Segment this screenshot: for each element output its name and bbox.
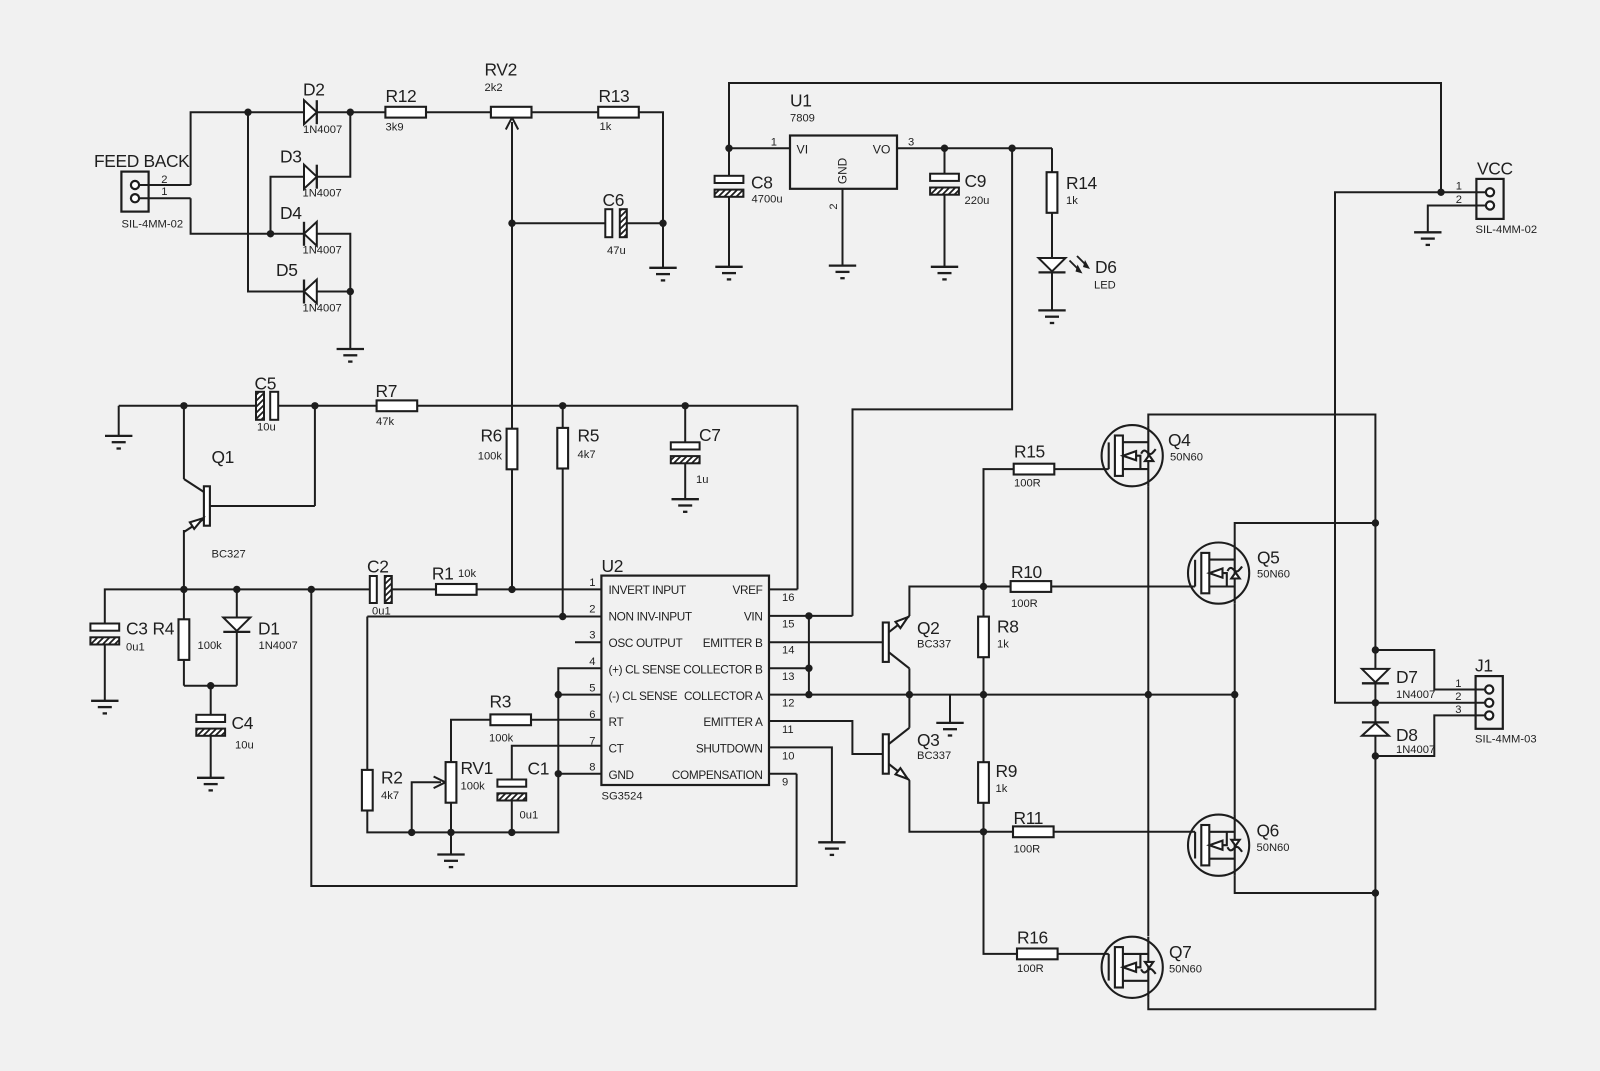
wire R12-RV2 <box>426 111 491 113</box>
svg-text:EMITTER A: EMITTER A <box>703 715 763 729</box>
svg-text:VI: VI <box>797 143 809 157</box>
svg-text:D1: D1 <box>258 619 280 639</box>
svg-text:R3: R3 <box>490 692 512 712</box>
node Q1 emitter row <box>180 586 187 593</box>
diode D8 1N4007 <box>1362 723 1389 735</box>
svg-text:100R: 100R <box>1014 844 1041 856</box>
svg-text:100R: 100R <box>1011 598 1038 610</box>
svg-text:1k: 1k <box>600 121 612 133</box>
svg-text:U2: U2 <box>602 556 624 576</box>
node D1 row <box>233 586 240 593</box>
svg-text:VO: VO <box>873 143 891 157</box>
wire R11 to Q6 gate <box>1054 831 1196 833</box>
svg-text:C8: C8 <box>751 173 773 193</box>
MOSFET Q7 50N60 <box>1102 937 1163 998</box>
wire R2 top <box>366 617 368 771</box>
svg-text:R12: R12 <box>386 86 417 106</box>
svg-text:VCC: VCC <box>1477 159 1513 179</box>
node output mid <box>1372 699 1379 706</box>
svg-text:4k7: 4k7 <box>578 449 596 461</box>
wire pin7 to C1 <box>512 746 602 780</box>
svg-text:7: 7 <box>589 735 595 747</box>
svg-text:D8: D8 <box>1396 725 1418 745</box>
svg-text:D4: D4 <box>280 203 302 223</box>
wire VCC pin2 to ground <box>1428 206 1485 233</box>
connector FEEDBACK SIL-4MM-02 <box>121 172 148 212</box>
svg-text:10u: 10u <box>257 422 276 434</box>
node RV2 wiper C6 <box>508 220 515 227</box>
capacitor C7 1u <box>684 406 686 443</box>
wire R14-D6 <box>1051 213 1053 258</box>
svg-text:1N4007: 1N4007 <box>1396 689 1435 701</box>
ground C9 <box>931 267 958 280</box>
svg-text:220u: 220u <box>965 195 990 207</box>
diode D1 1N4007 <box>236 589 238 617</box>
wire C6 to ground <box>662 223 664 268</box>
svg-text:13: 13 <box>782 671 794 683</box>
capacitor C9 220u <box>944 148 946 174</box>
wire D2 cathode <box>317 111 386 113</box>
ground left rail <box>119 405 256 407</box>
svg-text:R1: R1 <box>432 564 454 584</box>
svg-text:4: 4 <box>589 656 595 668</box>
wire RV2-R13 <box>532 111 599 113</box>
svg-text:1N4007: 1N4007 <box>303 188 342 200</box>
svg-text:R5: R5 <box>578 426 600 446</box>
wire D7 top to J1 pin1 <box>1375 650 1484 690</box>
wire C5-R7 <box>278 405 377 407</box>
diode D2 1N4007 <box>304 100 317 124</box>
resistor R8 1k <box>983 587 985 617</box>
node Q5 drain <box>1372 519 1379 526</box>
IC U1 7809 <box>790 136 897 189</box>
svg-text:47u: 47u <box>607 245 626 257</box>
svg-text:11: 11 <box>782 724 794 736</box>
svg-text:1N4007: 1N4007 <box>303 245 342 257</box>
svg-text:(-) CL SENSE: (-) CL SENSE <box>609 689 678 703</box>
node R6 pin1 <box>508 586 515 593</box>
svg-text:10: 10 <box>782 750 794 762</box>
wire R10 to Q5 gate <box>1051 586 1195 588</box>
svg-text:14: 14 <box>782 645 794 657</box>
capacitor C6 47u <box>605 209 612 237</box>
wire U1 GND pin <box>842 189 844 266</box>
svg-text:3: 3 <box>1455 704 1461 716</box>
node pin5 riser <box>555 691 562 698</box>
svg-text:1N4007: 1N4007 <box>303 303 342 315</box>
diode D7 1N4007 <box>1362 669 1389 682</box>
svg-text:15: 15 <box>782 618 794 630</box>
wire Q7 source <box>1148 893 1375 1009</box>
svg-text:C1: C1 <box>528 759 550 779</box>
wire RV1 bottom <box>450 803 452 833</box>
node compensation riser <box>308 586 315 593</box>
svg-text:Q4: Q4 <box>1168 430 1191 450</box>
node VO riser <box>1008 145 1015 152</box>
node Q2-Q3 collectors <box>906 691 913 698</box>
wire Q3 collector <box>908 695 910 728</box>
resistor R5 4k7 <box>562 406 564 428</box>
node RV1 wiper bottom <box>408 829 415 836</box>
wire pin16 VREF <box>769 588 798 590</box>
wire D3 anode to D4 row <box>271 177 305 234</box>
wire Q1 emitter down <box>183 530 185 589</box>
resistor R3 100k <box>490 714 531 725</box>
node U1 VI <box>725 145 732 152</box>
LED D6 <box>1039 258 1066 271</box>
resistor R2 4k7 <box>362 770 373 811</box>
node Q1 base riser <box>311 402 318 409</box>
node R5 top <box>559 402 566 409</box>
svg-text:R16: R16 <box>1017 928 1048 948</box>
wire Q5 source down <box>1234 604 1236 815</box>
svg-text:SG3524: SG3524 <box>602 791 643 803</box>
node R8-R9 <box>980 691 987 698</box>
node D4 cathode junction <box>267 230 274 237</box>
svg-text:1: 1 <box>161 186 167 198</box>
node D5 anode junction <box>347 288 354 295</box>
svg-text:100R: 100R <box>1014 478 1041 490</box>
wire pin12 COLLECTOR A <box>769 694 1235 696</box>
svg-text:2k2: 2k2 <box>485 82 503 94</box>
svg-text:10u: 10u <box>235 740 254 752</box>
wire RV1 top to R3 <box>451 720 491 762</box>
svg-text:LED: LED <box>1094 280 1116 292</box>
svg-text:47k: 47k <box>376 416 394 428</box>
ground C3 <box>91 701 118 714</box>
wire Q6 source <box>1235 876 1376 893</box>
node pin8 riser <box>555 770 562 777</box>
resistor R1 10k <box>436 584 477 595</box>
node C7 top <box>682 402 689 409</box>
wire D8 bottom <box>1374 736 1376 893</box>
svg-text:R4: R4 <box>153 619 175 639</box>
svg-text:VREF: VREF <box>732 583 762 597</box>
svg-text:2: 2 <box>1455 691 1461 703</box>
svg-text:BC337: BC337 <box>917 639 951 651</box>
resistor R7 47k <box>377 400 418 411</box>
wire Q2 emitter up <box>909 587 1010 617</box>
node VCC <box>1437 189 1444 196</box>
wire VI <box>729 147 790 149</box>
wire J1 pin2 <box>1375 702 1484 704</box>
wire pin9 COMPENSATION <box>769 773 797 775</box>
wire R1 to pin1 <box>477 588 602 590</box>
ground U1 <box>829 266 856 279</box>
wire Q4 source down <box>1147 486 1149 936</box>
resistor R12 3k9 <box>385 107 426 118</box>
ground C7 <box>672 499 699 512</box>
resistor R6 100k <box>507 429 518 470</box>
svg-text:50N60: 50N60 <box>1257 842 1290 854</box>
svg-text:100k: 100k <box>198 640 223 652</box>
svg-text:C2: C2 <box>367 557 389 577</box>
wire D5 cathode riser <box>248 112 304 291</box>
svg-text:(+) CL SENSE: (+) CL SENSE <box>609 662 681 676</box>
node Q6 source <box>1372 889 1379 896</box>
svg-text:R9: R9 <box>996 761 1018 781</box>
wire output column upper <box>1374 523 1376 669</box>
wire R15 left riser <box>984 469 1014 586</box>
ground D5 <box>337 349 364 362</box>
node D2 cathode junction <box>347 109 354 116</box>
svg-text:C7: C7 <box>699 425 721 445</box>
svg-text:SIL-4MM-02: SIL-4MM-02 <box>1476 224 1538 236</box>
capacitor C4 10u <box>210 686 212 715</box>
svg-text:Q6: Q6 <box>1257 821 1280 841</box>
wire pin15 VIN <box>769 615 853 617</box>
svg-text:NON INV-INPUT: NON INV-INPUT <box>609 610 692 624</box>
svg-text:R6: R6 <box>480 426 502 446</box>
wire pin5 <box>558 694 601 696</box>
wire D8 bottom to J1 pin3 <box>1375 715 1484 756</box>
svg-text:100R: 100R <box>1017 963 1044 975</box>
wire pin14 EMITTER B <box>769 641 883 643</box>
wire VCC top rail <box>729 83 1441 192</box>
node C9 <box>941 145 948 152</box>
node R10 left <box>980 583 987 590</box>
svg-text:100k: 100k <box>461 781 486 793</box>
connector J1 SIL-4MM-03 <box>1476 676 1503 729</box>
node Q1 collector <box>180 402 187 409</box>
svg-text:2: 2 <box>589 603 595 615</box>
wire pin1 row left <box>105 589 370 623</box>
svg-text:R11: R11 <box>1014 808 1044 828</box>
svg-text:Q1: Q1 <box>212 447 235 467</box>
diode D3 1N4007 <box>304 165 317 189</box>
wire Q3 emitter down <box>909 780 1013 832</box>
connector VCC SIL-4MM-02 <box>1476 179 1503 219</box>
resistor R9 1k <box>983 695 985 763</box>
svg-text:CT: CT <box>609 742 624 756</box>
wire R2 bottom row <box>367 668 601 832</box>
resistor R13 1k <box>598 107 639 118</box>
IC U2 SG3524 <box>601 576 769 785</box>
ground VCC <box>1414 232 1441 245</box>
svg-text:1N4007: 1N4007 <box>259 640 298 652</box>
transistor Q1 BC327 <box>183 406 185 479</box>
resistor R14 1k <box>1047 172 1058 213</box>
svg-text:SIL-4MM-02: SIL-4MM-02 <box>122 219 184 231</box>
MOSFET Q6 50N60 <box>1188 815 1249 876</box>
svg-text:RT: RT <box>609 715 624 729</box>
resistor R16 100R <box>1017 949 1058 960</box>
svg-text:INVERT INPUT: INVERT INPUT <box>609 583 686 597</box>
wire R14 drop <box>1051 148 1053 172</box>
wire pin10 SHUTDOWN <box>769 747 832 842</box>
svg-text:50N60: 50N60 <box>1257 569 1290 581</box>
resistor R4 100k <box>183 589 185 619</box>
svg-text:1: 1 <box>1456 181 1462 193</box>
svg-text:R14: R14 <box>1066 173 1098 193</box>
svg-text:J1: J1 <box>1475 656 1493 676</box>
svg-text:3: 3 <box>908 137 914 149</box>
capacitor C2 0u1 <box>370 576 377 603</box>
node VIN riser x809 <box>805 612 812 619</box>
wire wiper-C6 <box>512 222 605 224</box>
MOSFET Q4 50N60 <box>1102 425 1163 486</box>
svg-text:R8: R8 <box>997 617 1019 637</box>
node Q5 source pin12 <box>1231 691 1238 698</box>
svg-text:OSC OUTPUT: OSC OUTPUT <box>609 636 683 650</box>
svg-text:R2: R2 <box>381 768 403 788</box>
ground C8 <box>715 267 742 280</box>
wire D3 right riser <box>317 112 351 177</box>
svg-text:GND: GND <box>609 768 634 782</box>
svg-text:D2: D2 <box>303 80 325 100</box>
svg-text:RV2: RV2 <box>485 60 517 80</box>
node D8 bottom <box>1372 752 1379 759</box>
wire pin8 <box>558 773 601 775</box>
ground D6 <box>1038 310 1065 323</box>
svg-text:D5: D5 <box>276 260 298 280</box>
wire R15 to Q4 gate <box>1054 468 1108 470</box>
svg-text:SHUTDOWN: SHUTDOWN <box>696 742 763 756</box>
wire wiper down to R6 <box>511 223 513 429</box>
wire VREF riser <box>797 406 799 590</box>
node C1 bottom <box>508 829 515 836</box>
RV2 wiper arrow <box>511 122 513 223</box>
wire to ground D5 <box>349 292 351 350</box>
svg-text:R10: R10 <box>1011 562 1042 582</box>
svg-text:C9: C9 <box>965 171 987 191</box>
wire R3 to pin6 <box>531 719 602 721</box>
svg-text:0u1: 0u1 <box>126 642 145 654</box>
node D7 top <box>1372 646 1379 653</box>
wire VO <box>897 147 1052 149</box>
svg-text:1: 1 <box>589 577 595 589</box>
svg-text:R13: R13 <box>599 86 630 106</box>
svg-text:1u: 1u <box>696 474 708 486</box>
svg-text:2: 2 <box>828 203 840 209</box>
wire D5 anode <box>317 291 351 293</box>
svg-text:D7: D7 <box>1396 667 1418 687</box>
svg-text:D6: D6 <box>1095 257 1117 277</box>
wire R16 to Q7 gate <box>1058 953 1109 955</box>
wire D6 to ground <box>1051 273 1053 311</box>
svg-text:FEED BACK: FEED BACK <box>94 151 190 171</box>
svg-text:VIN: VIN <box>744 610 763 624</box>
wire C6-R13node <box>627 222 663 224</box>
wire riser x809 <box>808 616 810 695</box>
svg-text:COLLECTOR A: COLLECTOR A <box>684 689 763 703</box>
wire R5 bottom to pin2 <box>562 469 564 617</box>
wire pin2 row <box>367 616 601 618</box>
diode D5 1N4007 <box>304 280 317 304</box>
svg-text:100k: 100k <box>489 733 514 745</box>
wire C2-R1 <box>392 588 436 590</box>
potentiometer RV1 100k <box>412 782 441 832</box>
svg-text:1N4007: 1N4007 <box>1396 744 1435 756</box>
svg-text:9: 9 <box>782 777 788 789</box>
svg-text:C3: C3 <box>126 619 148 639</box>
svg-text:C6: C6 <box>603 190 625 210</box>
node R5 pin2 <box>559 613 566 620</box>
ground R13 C6 <box>649 268 676 281</box>
wire Q5 drain <box>1235 523 1376 543</box>
wire pin11 EMITTER A to Q3 <box>769 721 883 754</box>
node C6 right <box>659 220 666 227</box>
wire R16 left riser <box>984 832 1018 954</box>
wire R6 bottom <box>511 469 513 589</box>
wire feedback pin1 <box>139 197 190 199</box>
transistor Q2 BC337 <box>883 616 910 668</box>
svg-text:0u1: 0u1 <box>520 810 539 822</box>
MOSFET Q5 50N60 <box>1188 543 1249 604</box>
ground stub pin12 row <box>949 695 951 723</box>
svg-text:10k: 10k <box>458 568 476 580</box>
svg-text:8: 8 <box>589 762 595 774</box>
svg-text:COLLECTOR B: COLLECTOR B <box>683 662 763 676</box>
svg-text:7809: 7809 <box>790 113 815 125</box>
svg-text:C5: C5 <box>255 374 277 394</box>
node pin13 <box>805 665 812 672</box>
svg-text:Q5: Q5 <box>1257 548 1280 568</box>
node R11 left <box>980 828 987 835</box>
ground RV1 row <box>450 832 452 854</box>
wire R13 right down <box>639 112 664 223</box>
node C4 top <box>207 682 214 689</box>
resistor R15 100R <box>1014 464 1055 475</box>
wire VIN riser <box>853 148 1013 616</box>
wire D7-D8 <box>1374 684 1376 723</box>
svg-text:BC327: BC327 <box>212 549 246 561</box>
ground C4 <box>197 778 224 791</box>
pin3 stub <box>575 641 601 643</box>
transistor Q3 BC337 <box>883 728 910 780</box>
capacitor C1 0u1 <box>497 780 526 787</box>
svg-text:50N60: 50N60 <box>1169 964 1202 976</box>
svg-text:SIL-4MM-03: SIL-4MM-03 <box>1475 734 1537 746</box>
resistor R11 100R <box>1013 826 1054 837</box>
svg-text:U1: U1 <box>790 91 812 111</box>
node Q4 source pin12 <box>1145 691 1152 698</box>
svg-text:12: 12 <box>782 698 794 710</box>
svg-text:50N60: 50N60 <box>1170 452 1203 464</box>
wire pin13 COLLECTOR B <box>769 667 809 669</box>
wire Q2 collector <box>908 668 910 694</box>
node pin12 x809 <box>805 691 812 698</box>
svg-text:1k: 1k <box>1066 195 1078 207</box>
svg-text:BC337: BC337 <box>917 750 951 762</box>
svg-text:EMITTER B: EMITTER B <box>703 636 763 650</box>
capacitor C8 4700u <box>728 148 730 176</box>
wire R7 to VREF riser <box>417 405 798 407</box>
svg-text:2: 2 <box>1456 194 1462 206</box>
wire feedback pin2 <box>139 184 190 186</box>
wire VCC pin1 <box>1441 191 1485 193</box>
svg-text:1k: 1k <box>996 783 1008 795</box>
svg-text:16: 16 <box>782 592 794 604</box>
svg-text:R15: R15 <box>1014 442 1045 462</box>
svg-text:D3: D3 <box>280 147 302 167</box>
svg-text:6: 6 <box>589 709 595 721</box>
svg-text:R7: R7 <box>376 381 398 401</box>
node RV1 bottom <box>447 829 454 836</box>
svg-text:3: 3 <box>589 630 595 642</box>
svg-text:5: 5 <box>589 683 595 695</box>
diode D4 1N4007 <box>304 222 317 246</box>
svg-text:COMPENSATION: COMPENSATION <box>672 768 763 782</box>
svg-text:100k: 100k <box>478 451 503 463</box>
svg-text:Q7: Q7 <box>1169 942 1192 962</box>
svg-text:Q2: Q2 <box>917 618 940 638</box>
wire R4-D1 join <box>184 685 237 687</box>
capacitor C3 0u1 <box>90 624 119 631</box>
ground SHUTDOWN <box>818 842 845 855</box>
svg-text:1N4007: 1N4007 <box>303 124 342 136</box>
potentiometer RV2 2k2 <box>491 107 532 118</box>
